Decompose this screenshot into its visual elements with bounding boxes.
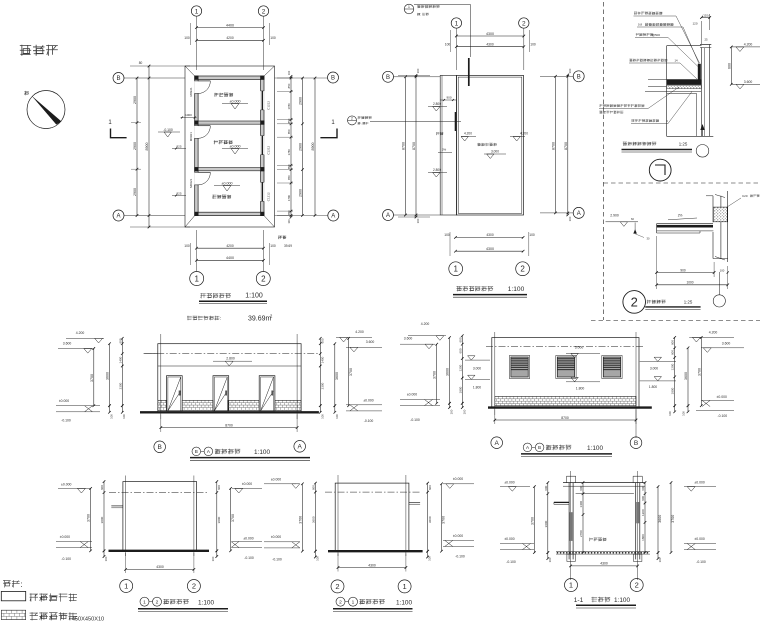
floor plan top dim 4200 + 100s: [197, 39, 264, 41]
svg-text:1:100: 1:100: [614, 597, 630, 604]
sect 11 right outer levels/chains: [657, 487, 659, 553]
svg-text:900: 900: [680, 268, 686, 272]
roof plan canopy dim 900: [440, 99, 456, 101]
roof plan: detail callout 1 top: [404, 4, 414, 14]
floor plan outer apron: [185, 66, 275, 227]
svg-text:1: 1: [143, 599, 146, 605]
elev BA bottom grid bubbles B A: [154, 441, 166, 453]
svg-text:4.200: 4.200: [744, 43, 753, 47]
svg-text:3700: 3700: [87, 514, 91, 522]
svg-text:0.8: 0.8: [638, 23, 643, 27]
sect 11 ground hatch dots: [557, 552, 559, 554]
svg-text:3.000: 3.000: [575, 345, 584, 349]
svg-text:1:25: 1:25: [679, 142, 688, 147]
sect 11 interior dim chain left: [582, 483, 584, 553]
room area 房间 39.69: [278, 236, 286, 239]
elev AB title: [523, 443, 532, 452]
svg-text:3.600: 3.600: [744, 80, 753, 84]
svg-text:B: B: [331, 76, 335, 82]
detail 1 leader lines to flashing: [676, 16, 700, 63]
svg-text:B: B: [538, 445, 541, 450]
svg-text:2: 2: [631, 295, 638, 310]
floor plan right chain 2900s: [302, 78, 304, 215]
svg-text:A: A: [577, 211, 581, 217]
svg-text:600: 600: [458, 337, 462, 342]
sect 11 window opening right wall: [636, 502, 639, 523]
svg-text:2: 2: [522, 20, 526, 27]
svg-text:2: 2: [156, 599, 159, 605]
svg-text:M0921: M0921: [189, 87, 193, 97]
sect 11 bottom dim 4300: [571, 565, 638, 567]
svg-text::: :: [420, 13, 421, 17]
svg-text:100: 100: [184, 36, 190, 40]
sect 11 walls: [568, 483, 570, 560]
svg-text:1: 1: [194, 274, 199, 283]
svg-text:4300: 4300: [486, 247, 494, 251]
svg-text:3600: 3600: [684, 372, 688, 380]
svg-text:2: 2: [635, 581, 639, 590]
svg-text:8700: 8700: [561, 416, 569, 420]
svg-text:3700: 3700: [433, 371, 437, 379]
svg-text:100: 100: [335, 414, 339, 419]
svg-text:1: 1: [352, 599, 355, 605]
svg-text:2: 2: [351, 116, 353, 120]
svg-text:3000: 3000: [100, 516, 104, 523]
floor plan right chain 850/1780/850: [290, 76, 292, 217]
svg-text:100: 100: [568, 216, 572, 221]
svg-text:-0.100: -0.100: [717, 414, 727, 418]
svg-text:1780: 1780: [287, 194, 291, 201]
svg-text:3.000: 3.000: [650, 366, 658, 370]
svg-text:4400: 4400: [226, 256, 234, 260]
svg-text:±0.000: ±0.000: [407, 393, 417, 397]
floor plan grid line 1: [196, 16, 198, 70]
sect 11 door opening left wall: [570, 512, 573, 541]
svg-text:100: 100: [682, 411, 686, 416]
detail 1 number circle: [649, 159, 671, 181]
roof plan main roof outline: [457, 75, 524, 215]
svg-text:8700: 8700: [225, 423, 233, 427]
svg-text:600: 600: [641, 485, 645, 490]
svg-text:3600: 3600: [106, 372, 110, 380]
svg-text:1400: 1400: [118, 356, 122, 363]
svg-text:±0.000: ±0.000: [243, 537, 253, 541]
svg-text:600: 600: [641, 496, 645, 501]
svg-text:4300: 4300: [156, 565, 164, 569]
elev 21 bottom grid bubbles 2 1: [331, 580, 344, 593]
roof plan top grid bubbles: [451, 18, 461, 28]
svg-text:±0.000: ±0.000: [271, 535, 281, 539]
svg-text:8900: 8900: [145, 143, 149, 151]
svg-text:100: 100: [287, 219, 291, 224]
svg-text:M0921: M0921: [189, 132, 193, 142]
svg-text:8700: 8700: [402, 142, 406, 150]
svg-text:825: 825: [176, 191, 181, 195]
detail 1 roof slab hatched band: [667, 80, 702, 85]
svg-text:3600: 3600: [311, 516, 315, 523]
svg-text:2: 2: [261, 274, 266, 283]
detail 2 wall break symbols: [715, 195, 725, 198]
legend grey brick swatch: [1, 610, 25, 619]
floor plan right grid bubbles B A: [328, 72, 339, 83]
details area dashed border: [603, 2, 605, 320]
floor plan top dim 4400: [197, 27, 264, 29]
svg-text:M0921: M0921: [189, 178, 193, 188]
svg-text:600: 600: [458, 348, 462, 353]
elev 12 bottom dim 4300: [126, 568, 194, 570]
svg-text:600: 600: [579, 485, 583, 490]
area note 本层建筑面积: [187, 316, 221, 322]
svg-text:100: 100: [444, 233, 450, 237]
svg-text:C1212: C1212: [267, 145, 271, 154]
floor plan bottom grid bubbles: [190, 272, 204, 286]
elev AB right chains: [674, 337, 676, 405]
elev BA body outline: [158, 344, 301, 413]
svg-text:8900: 8900: [311, 143, 315, 151]
svg-text:A: A: [331, 214, 335, 220]
roof plan detail-2 callout leader and cut bar: [370, 121, 461, 123]
svg-text:(120): (120): [702, 13, 708, 17]
svg-text:±0.000: ±0.000: [504, 480, 514, 484]
svg-text:±0.000: ±0.000: [453, 477, 463, 481]
elev AB grid lines: [494, 332, 496, 415]
svg-text:3.000: 3.000: [473, 367, 481, 371]
roof plan top dims 4300 4300: [456, 35, 523, 37]
svg-text:2%: 2%: [442, 148, 447, 152]
svg-text:1: 1: [403, 582, 407, 591]
roof plan bottom dims 4300 4300: [456, 236, 524, 238]
floor plan exterior walls: [195, 76, 264, 216]
elev AB left 3.000/1.800 flags: [465, 359, 490, 361]
elev 21 ground thick line: [328, 550, 423, 552]
svg-text:4400: 4400: [226, 23, 234, 27]
elev 12 body outline: [123, 482, 197, 551]
svg-text:±0.000: ±0.000: [453, 534, 463, 538]
drawing title 垃圾房: [20, 45, 58, 56]
svg-text:600: 600: [428, 485, 432, 490]
svg-text:100: 100: [450, 409, 454, 414]
room label 厨房垃圾: [214, 140, 233, 144]
svg-text:14: 14: [674, 59, 678, 63]
svg-text:600: 600: [727, 63, 731, 69]
elev 21 body outline: [335, 483, 409, 551]
svg-text:C20: C20: [742, 194, 748, 198]
elev 12 bottom grid bubbles 1 2: [120, 580, 133, 593]
roof plan callout leader to cut mark: [414, 4, 471, 6]
svg-text:600: 600: [100, 485, 104, 490]
elev AB ground thick line: [488, 406, 652, 408]
detail 2 dims 900 / 1000 / 100: [657, 272, 715, 274]
svg-text:1:25: 1:25: [684, 300, 693, 305]
svg-text:4.200: 4.200: [709, 331, 718, 335]
svg-text:B: B: [634, 440, 638, 447]
svg-text:3600: 3600: [335, 372, 339, 380]
svg-text:100: 100: [529, 233, 535, 237]
svg-text:2: 2: [262, 8, 266, 15]
svg-text:100: 100: [104, 556, 108, 561]
svg-text:3700: 3700: [530, 517, 534, 525]
svg-text:825: 825: [176, 144, 181, 148]
svg-text:850: 850: [287, 175, 291, 180]
svg-text:3700: 3700: [671, 515, 675, 523]
svg-text:2.800: 2.800: [433, 102, 441, 106]
svg-text:39.69m: 39.69m: [248, 316, 272, 323]
svg-text:100: 100: [122, 414, 126, 419]
svg-text::: :: [220, 316, 221, 322]
svg-text:3600: 3600: [446, 368, 450, 376]
svg-text:4300: 4300: [486, 43, 494, 47]
svg-text:100: 100: [720, 269, 725, 273]
floor plan interior walls: [195, 121, 264, 124]
svg-text:2.800: 2.800: [226, 357, 235, 361]
svg-text:±0.000: ±0.000: [61, 483, 71, 487]
svg-text:850: 850: [287, 164, 291, 169]
svg-text:±0.000: ±0.000: [242, 482, 252, 486]
svg-text:4300: 4300: [486, 233, 494, 237]
svg-text:±0.000: ±0.000: [271, 478, 281, 482]
svg-text:±0.000: ±0.000: [363, 398, 373, 402]
svg-text:3.600: 3.600: [366, 340, 375, 344]
elev 21 grid lines: [337, 475, 339, 556]
sect 11 footings below ground: [567, 554, 575, 561]
elev BA title: [192, 447, 201, 456]
svg-text:1:100: 1:100: [245, 293, 263, 300]
svg-text:±0.000: ±0.000: [230, 144, 241, 148]
roof plan right grid bubbles B A: [573, 71, 584, 82]
svg-text:2: 2: [335, 582, 339, 591]
svg-text:850: 850: [287, 83, 291, 88]
svg-text:1780: 1780: [287, 149, 291, 156]
detail 2 leader circle bottom right: [718, 272, 720, 295]
svg-text:2900: 2900: [299, 97, 303, 105]
svg-text:B: B: [158, 444, 162, 451]
svg-text:4.200: 4.200: [355, 330, 364, 334]
detail 2 canopy slab: [657, 223, 713, 225]
sect 11 canopy at left: [554, 501, 569, 503]
svg-text:600: 600: [671, 340, 675, 345]
svg-text:3.600: 3.600: [404, 336, 413, 340]
svg-text:-0.100: -0.100: [696, 560, 706, 564]
svg-text:4200: 4200: [226, 36, 234, 40]
room label 生活垃圾: [212, 195, 231, 199]
svg-text:1200: 1200: [641, 509, 645, 516]
detail 1 roof membrane flashing black: [698, 64, 701, 81]
room2 level: [222, 148, 248, 150]
svg-text:8700: 8700: [564, 142, 568, 150]
sect 11 room label 厨房垃圾: [589, 538, 606, 542]
svg-text:4200: 4200: [226, 244, 234, 248]
room1 level: [222, 103, 248, 105]
elev BA brick strips at base: [158, 400, 167, 410]
svg-text:B: B: [195, 449, 198, 454]
svg-text:120: 120: [692, 22, 697, 26]
elev AB left chains: [436, 344, 438, 403]
detail 1 coping cap: [700, 44, 711, 46]
elev AB windows (3) with louvers: [509, 356, 529, 379]
floor plan column blocks: [194, 76, 198, 80]
svg-text:-0.100: -0.100: [272, 558, 282, 562]
svg-text:3.000: 3.000: [491, 150, 499, 154]
detail 2 concrete hatched block: [713, 207, 727, 222]
detail 1 right levels 4.200/3.600 and 600 dim: [731, 46, 760, 48]
svg-text:C1212: C1212: [267, 101, 271, 110]
svg-text:1200: 1200: [458, 364, 462, 371]
svg-text:1400: 1400: [321, 356, 325, 363]
svg-text:A: A: [116, 214, 120, 220]
svg-text:-0.100: -0.100: [410, 418, 420, 422]
elev BA doors (3): [167, 376, 183, 411]
elev BA right levels and chains: [319, 338, 321, 405]
elev 21 title: [336, 597, 345, 606]
svg-text:-0.100: -0.100: [244, 556, 254, 560]
elev AB right 3.000/1.800 flags: [640, 361, 676, 363]
svg-text:100: 100: [568, 68, 572, 73]
svg-text:1000: 1000: [185, 113, 192, 117]
sect 11 parapet caps: [567, 475, 576, 477]
detail 1 section arrow and circle: [702, 125, 704, 136]
svg-text:100: 100: [321, 414, 325, 419]
svg-text:2: 2: [192, 582, 196, 591]
detail 2 canopy: wall verticals with break: [712, 196, 714, 222]
svg-text:1:100: 1:100: [198, 599, 214, 606]
elev BA dim 8700 below: [161, 427, 297, 429]
roof plan bottom grid bubbles: [449, 262, 463, 276]
svg-text:±0.000: ±0.000: [230, 99, 241, 103]
legend heading 图例: [3, 579, 23, 589]
svg-text:4300: 4300: [600, 562, 608, 566]
svg-text:850: 850: [287, 210, 291, 215]
svg-text:±0.000: ±0.000: [59, 399, 69, 403]
svg-text:600: 600: [311, 485, 315, 490]
svg-text:C1212: C1212: [267, 192, 271, 201]
floor plan title 一层平面图 1:100: [200, 293, 230, 298]
svg-text:1.800: 1.800: [576, 386, 585, 390]
svg-text:1200: 1200: [671, 363, 675, 370]
roof plan detail-1 cut bar: [468, 58, 470, 86]
svg-text:3700: 3700: [349, 368, 353, 376]
svg-text:2%: 2%: [678, 214, 683, 218]
svg-text:2.900: 2.900: [610, 214, 619, 218]
svg-text:1: 1: [455, 20, 459, 27]
elev 21 bottom dim 4300: [338, 567, 406, 569]
elev BA parapet band line: [158, 365, 301, 367]
svg-text:1780: 1780: [287, 103, 291, 110]
floor plan top grid bubble 2: [258, 6, 268, 16]
svg-text:1.800: 1.800: [649, 385, 657, 389]
floor plan left chain 2900s: [136, 78, 138, 216]
elev AB bottom grid bubbles A B: [491, 437, 503, 449]
detail 1 top horizontal: [667, 45, 702, 47]
svg-text:100: 100: [416, 68, 420, 73]
svg-text:2900: 2900: [133, 96, 137, 104]
svg-text:2.800: 2.800: [433, 168, 441, 172]
svg-text:3700: 3700: [697, 368, 701, 376]
svg-text:1:100: 1:100: [254, 449, 270, 456]
svg-text:8700: 8700: [552, 142, 556, 150]
svg-text:1: 1: [569, 581, 573, 590]
elev 21 canopy stub right: [409, 502, 420, 504]
svg-text:600: 600: [544, 485, 548, 490]
svg-text:4300: 4300: [486, 32, 494, 36]
detail 1 parapet wall verticals: [701, 48, 703, 137]
svg-text:-0.100: -0.100: [506, 560, 516, 564]
floor plan apron corner diagonals: [185, 66, 195, 76]
svg-text:2300: 2300: [118, 382, 122, 389]
elev 12 canopy stub left: [111, 505, 123, 507]
svg-text:39.69: 39.69: [284, 244, 292, 248]
svg-text:±0.000: ±0.000: [60, 535, 70, 539]
elev 12 right levels/chains: [216, 482, 218, 551]
detail 1 title 屋面女儿墙详图 1:25: [623, 142, 657, 146]
svg-text:±0.000: ±0.000: [222, 181, 233, 185]
svg-text:600: 600: [217, 485, 221, 490]
svg-text:2900: 2900: [299, 143, 303, 151]
svg-text:3600: 3600: [428, 516, 432, 523]
svg-text:1800: 1800: [458, 386, 462, 393]
elev BA ground line thick: [140, 411, 319, 413]
svg-text:2900: 2900: [133, 188, 137, 196]
svg-text:B: B: [116, 76, 120, 82]
outdoor level -0.100 left of plan: [158, 131, 180, 133]
svg-text:1: 1: [453, 265, 458, 274]
elev AB body outline: [492, 338, 639, 407]
sect 11 interior dim chain right: [644, 483, 646, 553]
svg-text:1.800: 1.800: [473, 386, 481, 390]
legend white stone paint swatch: [1, 591, 25, 600]
svg-text:1:100: 1:100: [587, 445, 603, 452]
svg-text:3700: 3700: [90, 374, 94, 382]
detail 1 slab dotted insulation: [667, 85, 702, 89]
detail 1 leader texts (annotations): [634, 12, 662, 15]
svg-text:3.600: 3.600: [722, 342, 731, 346]
roof plan title 屋面层平面图 1:100: [456, 286, 493, 291]
svg-text:25: 25: [704, 38, 708, 42]
svg-text::: :: [20, 579, 22, 589]
svg-text:A: A: [495, 440, 500, 447]
svg-text:450X450X10: 450X450X10: [72, 617, 104, 621]
elev 21 dash-dot line: [325, 491, 420, 493]
north compass: [27, 91, 65, 129]
svg-text:B: B: [386, 75, 390, 81]
room3 level: [214, 185, 240, 187]
room label 医疗垃圾: [214, 93, 233, 97]
roof plan canopy strip (left): [440, 75, 456, 215]
svg-text:80: 80: [139, 61, 143, 65]
svg-text:4300: 4300: [368, 563, 376, 567]
roof plan right dim chains 8700: [555, 76, 557, 213]
detail callout 2 right of plan: [348, 116, 357, 125]
svg-text:-0.100: -0.100: [61, 419, 71, 423]
roof plan left grid bubbles B A: [383, 71, 394, 82]
svg-text:1800: 1800: [641, 534, 645, 541]
svg-text:900: 900: [446, 96, 451, 100]
svg-text:600: 600: [321, 338, 325, 343]
svg-text:3600: 3600: [658, 515, 662, 523]
svg-text:4.200: 4.200: [421, 322, 430, 326]
sect 11 bottom grid bubbles 1 2: [565, 579, 578, 592]
elev BA canopy dash-dot line 2.800: [145, 353, 318, 355]
svg-text:3000: 3000: [217, 516, 221, 523]
svg-text:±0.000: ±0.000: [694, 537, 704, 541]
elev 12 title: [140, 597, 149, 606]
roof plan 不上人屋面 label: [477, 143, 497, 146]
svg-text:3700: 3700: [298, 516, 302, 524]
roof plan 雨篷 label: [436, 132, 443, 135]
svg-text:8700: 8700: [412, 142, 416, 150]
svg-text:1: 1: [124, 582, 128, 591]
svg-text:1: 1: [195, 8, 199, 15]
svg-text:100: 100: [462, 409, 466, 414]
